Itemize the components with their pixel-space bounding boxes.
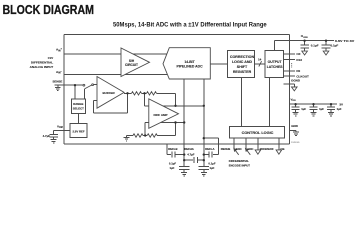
svg-text:1µF: 1µF — [210, 166, 215, 170]
svg-text:0.5V TO 3V: 0.5V TO 3V — [335, 39, 354, 43]
svg-text:2.5V REF: 2.5V REF — [72, 130, 84, 134]
svg-text:ENC: ENC — [236, 147, 242, 151]
svg-text:OF: OF — [296, 52, 300, 56]
svg-text:1µF: 1µF — [337, 107, 342, 111]
svg-text:REGISTER: REGISTER — [233, 70, 252, 74]
svg-text:DIFF AMP: DIFF AMP — [153, 113, 167, 117]
svg-text:CORRECTION: CORRECTION — [230, 55, 255, 59]
svg-text:REFHB: REFHB — [221, 147, 231, 151]
svg-text:0.1µF: 0.1µF — [311, 44, 319, 48]
svg-text:1µF: 1µF — [301, 107, 306, 111]
svg-text:ENCODE INPUT: ENCODE INPUT — [229, 163, 250, 167]
svg-text:ENC: ENC — [248, 147, 254, 151]
svg-text:REFHA: REFHA — [184, 147, 194, 151]
svg-text:SENSE: SENSE — [53, 80, 63, 84]
svg-text:RANGE: RANGE — [73, 102, 83, 106]
svg-text:D0: D0 — [296, 69, 300, 73]
svg-text:14-BIT: 14-BIT — [184, 60, 195, 64]
svg-text:CIRCUIT: CIRCUIT — [125, 63, 138, 67]
svg-text:50Msps, 14-Bit ADC with a ±1V: 50Msps, 14-Bit ADC with a ±1V Differenti… — [113, 21, 267, 28]
svg-text:CONTROL LOGIC: CONTROL LOGIC — [242, 131, 274, 135]
svg-text:ANALOG INPUT: ANALOG INPUT — [30, 65, 54, 69]
svg-text:DIFFERENTIAL: DIFFERENTIAL — [31, 61, 53, 65]
svg-text:AIN+: AIN+ — [56, 48, 63, 53]
svg-text:OVDD: OVDD — [301, 34, 308, 39]
svg-text:VDD: VDD — [291, 97, 297, 102]
svg-text:D13: D13 — [296, 58, 302, 62]
svg-text:0.1µF: 0.1µF — [331, 44, 339, 48]
svg-text:14: 14 — [258, 57, 262, 61]
svg-text:3V: 3V — [339, 103, 343, 107]
svg-text:VCM: VCM — [57, 124, 63, 129]
svg-text:OE: OE — [280, 147, 284, 151]
svg-text:PIPELINED ADC: PIPELINED ADC — [176, 65, 203, 69]
svg-text:SHIFT: SHIFT — [237, 65, 248, 69]
svg-text:OGND: OGND — [291, 78, 301, 82]
svg-text:4.7µF: 4.7µF — [187, 152, 194, 156]
svg-text:LOGIC AND: LOGIC AND — [232, 60, 252, 64]
svg-text:SELECT: SELECT — [73, 107, 84, 111]
svg-text:BLOCK DIAGRAM: BLOCK DIAGRAM — [3, 2, 95, 17]
svg-text:MODE/SHDN: MODE/SHDN — [260, 147, 274, 151]
svg-text:REFLB: REFLB — [168, 147, 177, 151]
svg-text:1µF: 1µF — [319, 107, 324, 111]
svg-text:REFLA: REFLA — [205, 147, 214, 151]
svg-text:±1V: ±1V — [48, 56, 54, 60]
svg-text:0.1µF: 0.1µF — [208, 161, 215, 165]
svg-text:1µF: 1µF — [170, 166, 175, 170]
svg-text:LATCHES: LATCHES — [267, 65, 283, 69]
svg-text:0.1µF: 0.1µF — [169, 161, 176, 165]
svg-text:GND: GND — [291, 124, 299, 128]
svg-text:4.7µF: 4.7µF — [43, 134, 51, 138]
svg-text:BUFFER: BUFFER — [103, 91, 116, 95]
svg-text:2249 BD: 2249 BD — [291, 142, 300, 144]
svg-text:AIN−: AIN− — [56, 70, 63, 75]
svg-text:OUTPUT: OUTPUT — [268, 60, 283, 64]
